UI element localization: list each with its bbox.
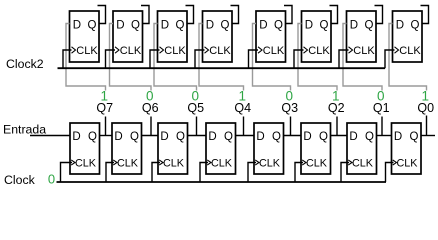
svg-text:D: D xyxy=(396,20,404,32)
svg-text:Q: Q xyxy=(224,131,233,143)
wire: Clock riser to U8 CLK pin xyxy=(386,163,394,183)
wire: U7 Q to U8 D (Q1) xyxy=(377,135,392,137)
D flip-flop U12 (output register bit Q4) xyxy=(203,11,233,62)
node Entrada label xyxy=(3,122,46,136)
wire: U16 Q output stub up xyxy=(421,6,429,24)
D flip-flop U4 (shift register stage 4) xyxy=(206,123,236,174)
svg-text:D: D xyxy=(73,20,81,32)
wire: U5 Q to U6 D (Q3) xyxy=(284,135,302,137)
svg-text:D: D xyxy=(208,131,216,143)
node Clock value 0 (probe, green) xyxy=(48,172,55,187)
node Q0 net label xyxy=(417,101,434,115)
node Q2 value 1 (probe, green) xyxy=(332,89,340,104)
svg-text:Q: Q xyxy=(88,20,97,32)
svg-text:CLK: CLK xyxy=(164,45,186,57)
wire: Q0 riser from shift-register stage xyxy=(426,116,428,136)
wire: Clock riser to U3 CLK pin xyxy=(152,163,160,183)
svg-text:Q6: Q6 xyxy=(142,101,159,115)
wire: Clock riser to U4 CLK pin xyxy=(200,163,208,183)
svg-text:D: D xyxy=(114,131,122,143)
wire: Q4 riser from shift-register stage xyxy=(243,117,245,136)
svg-text:Q5: Q5 xyxy=(187,101,204,115)
node Clock2 label xyxy=(6,57,44,71)
svg-text:D: D xyxy=(72,131,80,143)
wire: U11 Q output stub up xyxy=(186,6,194,24)
svg-text:Q4: Q4 xyxy=(234,101,251,115)
node Q7 value 1 (probe, green) xyxy=(101,89,109,104)
svg-text:D: D xyxy=(160,131,168,143)
wire: Clock2 riser to U13 CLK pin xyxy=(249,50,259,68)
svg-text:CLK: CLK xyxy=(117,158,139,170)
svg-text:Q: Q xyxy=(131,20,140,32)
svg-text:D: D xyxy=(350,20,358,32)
wire: Clock riser to U1 CLK pin xyxy=(61,163,73,183)
wire: net Q2 from label up to U14 D input (grey) xyxy=(298,24,337,91)
wire: Clock2 riser to U14 CLK pin xyxy=(294,50,304,68)
svg-text:D: D xyxy=(305,20,313,32)
svg-text:Q: Q xyxy=(365,131,374,143)
svg-text:Q: Q xyxy=(274,20,283,32)
svg-text:CLK: CLK xyxy=(352,158,374,170)
svg-text:CLK: CLK xyxy=(259,158,281,170)
wire: U10 Q output stub up xyxy=(141,6,149,24)
wire: Clock2 riser to U12 CLK pin xyxy=(195,50,205,68)
svg-text:D: D xyxy=(259,20,267,32)
svg-text:Q: Q xyxy=(411,20,420,32)
D flip-flop U16 (output register bit Q0) xyxy=(393,11,423,62)
D flip-flop U10 (output register bit Q6) xyxy=(113,11,143,62)
svg-text:Q: Q xyxy=(272,131,281,143)
wire: Q6 riser from shift-register stage xyxy=(150,117,152,136)
wire: Clock2 riser to U9 CLK pin xyxy=(63,50,72,68)
node Q6 net label xyxy=(142,101,159,115)
wire: U4 Q to U5 D (Q4) xyxy=(236,135,255,137)
wire: U12 Q output stub up xyxy=(231,6,239,24)
D flip-flop U6 (shift register stage 6) xyxy=(301,123,331,174)
svg-text:Clock2: Clock2 xyxy=(6,57,44,71)
D flip-flop U9 (output register bit Q7) xyxy=(70,11,100,62)
wire: U1 Q to U2 D (Q7) xyxy=(100,135,113,137)
wire: net Q5 from label up to U11 D input (grey) xyxy=(154,24,197,91)
D flip-flop U8 (shift register stage 8) xyxy=(392,123,422,174)
node Q4 net label xyxy=(234,101,251,115)
D flip-flop U3 (shift register stage 3) xyxy=(158,123,188,174)
wire: Q3 riser from shift-register stage xyxy=(290,117,292,136)
D flip-flop U1 (shift register stage 1) xyxy=(70,123,100,174)
D flip-flop U2 (shift register stage 2) xyxy=(112,123,142,174)
node Q1 value 0 (probe, green) xyxy=(377,89,385,104)
svg-text:Q7: Q7 xyxy=(96,101,113,115)
svg-text:Q: Q xyxy=(319,131,328,143)
svg-text:CLK: CLK xyxy=(209,45,231,57)
node Q7 net label xyxy=(96,101,113,115)
wire: net Q0 from label up to U16 D input (grey) xyxy=(389,24,427,91)
node Q1 net label xyxy=(373,101,390,115)
wire: U15 Q output stub up xyxy=(375,6,383,24)
wire: Q2 riser from shift-register stage xyxy=(336,117,338,136)
wire: net Q3 from label up to U13 D input (grey) xyxy=(253,24,291,91)
node Q0 value 1 (probe, green) xyxy=(422,89,430,104)
svg-text:CLK: CLK xyxy=(397,158,419,170)
wire: Q5 riser from shift-register stage xyxy=(196,117,198,136)
svg-text:D: D xyxy=(349,131,357,143)
svg-text:0: 0 xyxy=(48,172,55,187)
svg-text:CLK: CLK xyxy=(308,45,330,57)
wire: net Q1 from label up to U15 D input (grey) xyxy=(343,24,382,91)
svg-text:CLK: CLK xyxy=(163,158,185,170)
D flip-flop U11 (output register bit Q5) xyxy=(158,11,188,62)
svg-text:Clock: Clock xyxy=(4,173,36,187)
svg-text:Q: Q xyxy=(221,20,230,32)
wire: Clock2 riser to U16 CLK pin xyxy=(385,50,395,68)
svg-text:Q1: Q1 xyxy=(373,101,390,115)
svg-text:Q: Q xyxy=(176,20,185,32)
svg-text:D: D xyxy=(394,131,402,143)
wire: U3 Q to U4 D (Q5) xyxy=(188,135,207,137)
node Q3 net label xyxy=(281,101,298,115)
svg-text:CLK: CLK xyxy=(306,158,328,170)
D flip-flop U14 (output register bit Q2) xyxy=(302,11,332,62)
svg-text:Q2: Q2 xyxy=(328,101,345,115)
node Q5 net label xyxy=(187,101,204,115)
node Q4 value 1 (probe, green) xyxy=(239,89,247,104)
svg-text:Q3: Q3 xyxy=(281,101,298,115)
wire: U9 Q output stub up xyxy=(98,6,106,24)
wire: Clock riser to U7 CLK pin xyxy=(341,163,349,183)
node Q2 net label xyxy=(328,101,345,115)
wire: U14 Q output stub up xyxy=(330,6,338,24)
svg-text:CLK: CLK xyxy=(75,158,97,170)
svg-text:CLK: CLK xyxy=(76,45,98,57)
wire: Clock2 riser to U11 CLK pin xyxy=(150,50,160,68)
wire: Q7 riser from shift-register stage xyxy=(105,117,107,136)
svg-text:D: D xyxy=(303,131,311,143)
wire: Clock2 bus (horizontal) xyxy=(58,67,386,69)
svg-text:Q: Q xyxy=(320,20,329,32)
D flip-flop U7 (shift register stage 7) xyxy=(347,123,377,174)
wire: Clock riser to U2 CLK pin xyxy=(106,163,114,183)
svg-text:CLK: CLK xyxy=(353,45,375,57)
svg-text:D: D xyxy=(116,20,124,32)
wire: Entrada serial input to U1 D xyxy=(30,135,70,137)
wire: U6 Q to U7 D (Q2) xyxy=(331,135,348,137)
node Q3 value 0 (probe, green) xyxy=(286,89,294,104)
node Clock label xyxy=(4,173,36,187)
svg-text:Q: Q xyxy=(88,131,97,143)
svg-text:CLK: CLK xyxy=(399,45,421,57)
svg-text:D: D xyxy=(256,131,264,143)
D flip-flop U13 (output register bit Q3) xyxy=(256,11,286,62)
wire: Clock2 riser to U10 CLK pin xyxy=(106,50,116,68)
wire: U2 Q to U3 D (Q6) xyxy=(142,135,159,137)
wire: Clock2 riser to U15 CLK pin xyxy=(339,50,349,68)
svg-text:CLK: CLK xyxy=(120,45,142,57)
D flip-flop U15 (output register bit Q1) xyxy=(347,11,377,62)
node Q6 value 0 (probe, green) xyxy=(146,89,154,104)
wire: U13 Q output stub up xyxy=(284,6,292,24)
wire: net Q7 from label up to U9 D input (grey) xyxy=(66,24,106,91)
svg-text:Q0: Q0 xyxy=(417,101,434,115)
wire: Q1 riser from shift-register stage xyxy=(381,117,383,136)
svg-text:Q: Q xyxy=(410,131,419,143)
svg-text:Q: Q xyxy=(176,131,185,143)
wire: Clock riser to U6 CLK pin xyxy=(295,163,303,183)
svg-text:Q: Q xyxy=(130,131,139,143)
svg-text:Entrada: Entrada xyxy=(3,122,46,136)
svg-text:D: D xyxy=(206,20,214,32)
svg-text:CLK: CLK xyxy=(263,45,285,57)
svg-text:D: D xyxy=(161,20,169,32)
wire: Clock bus (horizontal) xyxy=(57,181,387,183)
wire: U8 Q output (Q0) xyxy=(421,135,435,137)
D flip-flop U5 (shift register stage 5) xyxy=(254,123,284,174)
node Q5 value 0 (probe, green) xyxy=(192,89,200,104)
wire: Clock riser to U5 CLK pin xyxy=(248,163,256,183)
svg-text:Q: Q xyxy=(365,20,374,32)
svg-text:CLK: CLK xyxy=(211,158,233,170)
wire: net Q6 from label up to U10 D input (grey) xyxy=(110,24,152,91)
wire: net Q4 from label up to U12 D input (grey) xyxy=(199,24,244,91)
